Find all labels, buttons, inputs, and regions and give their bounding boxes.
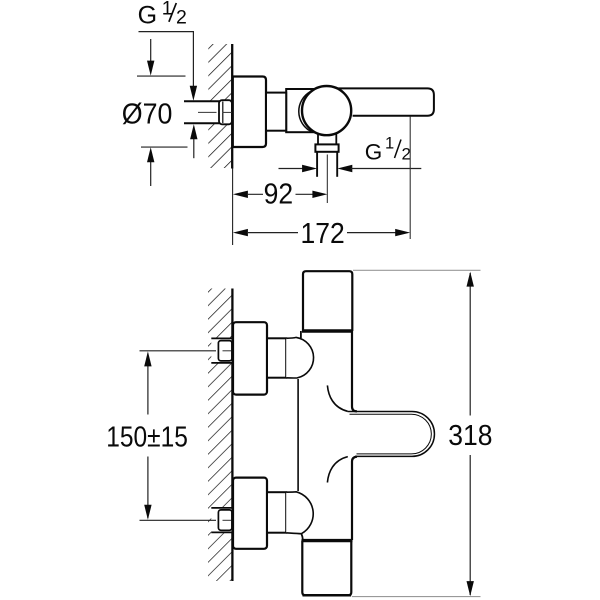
dimension 172 line — [233, 229, 248, 236]
outlet pipe G1/2 (top view) — [316, 152, 318, 177]
bottom outlet section of body — [302, 541, 351, 596]
svg-text:318: 318 — [448, 419, 492, 451]
spout upper fillet into body — [327, 385, 347, 411]
spout inner contour line — [350, 414, 432, 454]
upper escutcheon (front view) — [233, 322, 267, 394]
extension/center line upper union (150±15) — [140, 350, 217, 352]
top pipe section of body — [303, 271, 352, 331]
body edge stub below top joint — [300, 331, 302, 338]
outlet G1/2 dimension line with outside arrows — [279, 168, 305, 170]
bold joint line top — [302, 329, 353, 332]
dimension 92 line — [233, 191, 248, 198]
supply pipe in wall (top view) — [184, 100, 232, 102]
outlet neck below knob (top view) — [317, 132, 319, 145]
upper union cone bulge — [286, 337, 313, 378]
valve body rear section (top view) — [286, 89, 314, 132]
wall face extension line down to 92/172 dimensions — [232, 169, 234, 246]
extension line top of body (318) — [353, 269, 481, 271]
dimension Ø70 lower arrow — [150, 162, 152, 186]
body edge stub above bottom joint — [301, 534, 303, 541]
svg-text:G: G — [365, 140, 383, 165]
lower escutcheon (front view) — [233, 478, 267, 549]
dimension Ø70 upper arrow — [150, 39, 152, 62]
lower supply stub lines in wall — [211, 507, 231, 509]
svg-text:150±15: 150±15 — [106, 421, 188, 453]
spout lower fillet into body — [327, 457, 347, 483]
body right edge lower — [352, 457, 357, 540]
dimension 150±15 line and arrows — [147, 354, 149, 415]
dimension text G1/2 (outlet, right of pipe) — [365, 135, 411, 165]
spout outer outline — [348, 412, 435, 457]
square nut inner edge line (top view) — [222, 102, 224, 124]
outlet centerline (top view) — [326, 155, 328, 204]
dimension 318 line and arrows — [469, 273, 471, 416]
leader line from G1/2 down to supply pipe — [139, 32, 194, 87]
svg-text:G: G — [138, 2, 157, 30]
knob outer rim arc (top view) — [299, 92, 311, 132]
upper square union nut in wall — [218, 341, 232, 361]
bottom edge bold of outlet section — [303, 594, 352, 597]
extension/center line lower union (150±15) — [140, 519, 217, 521]
body left edge between unions — [297, 379, 299, 491]
svg-text:Ø70: Ø70 — [122, 98, 173, 130]
upper supply stub white mask — [211, 338, 231, 363]
svg-text:92: 92 — [264, 178, 293, 210]
supply pipe white mask (top view) — [184, 101, 232, 123]
dimension 172 extension line (spout tip) — [409, 117, 411, 240]
svg-text:2: 2 — [176, 7, 187, 29]
pipe centerline (top view) — [198, 111, 217, 113]
bold joint line bottom — [302, 539, 353, 542]
svg-text:172: 172 — [301, 217, 345, 249]
wall hatching (top view) — [208, 44, 231, 168]
extension line escutcheon bottom edge — [141, 146, 188, 148]
lower supply stub white mask — [211, 508, 231, 533]
wall face line (top view) — [231, 44, 233, 169]
dimension text G1/2 (wall supply, top-left) — [138, 0, 187, 30]
body right edge upper — [352, 331, 357, 411]
escutcheon flange (top view) — [233, 77, 266, 148]
lower square union nut in wall — [218, 510, 232, 530]
upper S-union adapter — [267, 338, 286, 377]
lower S-union adapter — [267, 492, 286, 533]
svg-text:1: 1 — [385, 135, 394, 153]
upper supply stub lines in wall — [211, 337, 231, 339]
arrow up to pipe bottom with tail — [193, 139, 195, 159]
wall face line (front view) — [231, 289, 233, 582]
handle knob circle (top view) — [302, 86, 351, 135]
extension line bottom of body (318) — [352, 596, 481, 598]
pipe fitting square nut in wall (top view) — [219, 100, 232, 124]
extension line escutcheon top edge — [137, 75, 186, 77]
svg-text:2: 2 — [402, 145, 411, 164]
lower union cone bulge — [286, 492, 313, 534]
lever handle (top view) — [334, 88, 434, 115]
wall hatching (front view) — [208, 289, 232, 582]
valve body front section (top view) — [266, 93, 286, 131]
outlet ring nut (top view) — [315, 144, 338, 151]
arrow down to pipe top — [190, 86, 197, 101]
